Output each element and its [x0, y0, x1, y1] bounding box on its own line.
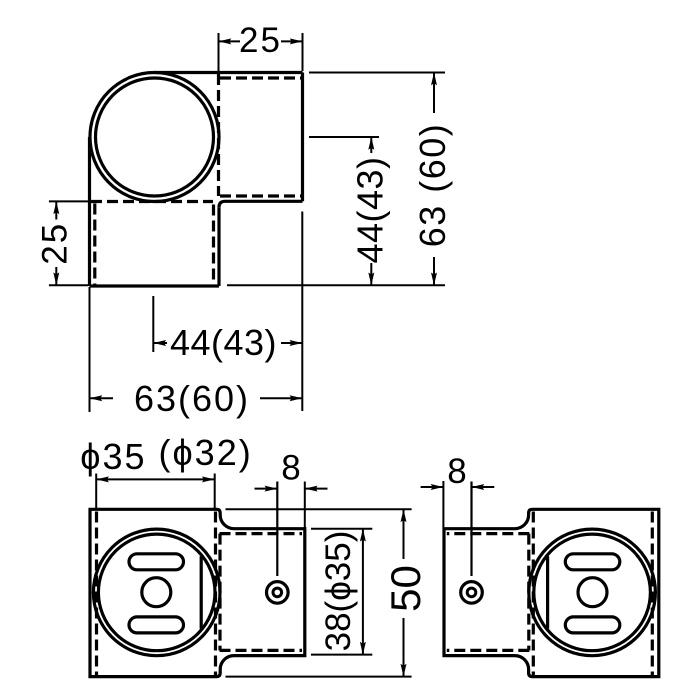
svg-text:25: 25 — [239, 21, 282, 60]
screw hole outer — [267, 582, 289, 604]
svg-text:63 (60): 63 (60) — [412, 123, 453, 248]
hidden line: right arm bore top — [220, 76, 301, 79]
svg-text:44(43): 44(43) — [349, 156, 390, 263]
hidden line: bore left wall — [651, 512, 654, 676]
hidden line: right arm bore bottom — [220, 194, 301, 197]
dim phi35(phi32): extension lines — [95, 474, 97, 509]
bore flat chord — [546, 556, 549, 628]
center hole — [578, 578, 607, 607]
socket boss outer circle — [90, 73, 219, 202]
socket ring outer circle — [529, 529, 656, 656]
upper slot — [565, 554, 620, 570]
hidden line: right arm socket end — [217, 74, 220, 196]
dim 63(60) horizontal: left extension (body edge extended) — [89, 287, 91, 412]
dim 8 left view: right extension line — [304, 482, 306, 528]
dim 38(phi35): dimension line both arrows — [362, 529, 364, 655]
dim 63(60) vertical: dimension line — [433, 73, 435, 114]
screw hole centerline — [470, 482, 472, 577]
body left edge — [88, 137, 91, 286]
socket bore inner circle — [96, 78, 214, 196]
hidden line: arm bore bottom — [220, 649, 303, 652]
center hole — [142, 578, 171, 607]
dim 63(60) vertical: top extension line — [309, 72, 445, 74]
hidden line: arm bore top — [447, 532, 530, 535]
svg-text:38(ϕ35): 38(ϕ35) — [319, 531, 358, 652]
dim 25 left: extension lines — [49, 200, 88, 202]
dim phi35(phi32): dimension line both arrows — [96, 478, 215, 480]
dim 25 top: dimension line with outward arrows — [219, 40, 241, 42]
dim 50: dimension line — [403, 509, 405, 559]
dim 50: bottom extension line — [226, 676, 412, 678]
svg-text:ϕ35 (ϕ32): ϕ35 (ϕ32) — [80, 432, 252, 477]
svg-text:8: 8 — [447, 452, 466, 491]
svg-text:8: 8 — [281, 449, 300, 488]
hidden line: arm bore bottom — [447, 649, 530, 652]
svg-text:63(60): 63(60) — [134, 378, 250, 419]
right extension line x=302.3 — [301, 212, 303, 412]
dim 25 left: dimension line — [55, 201, 57, 219]
hidden line: lower arm socket end — [91, 200, 213, 203]
lower slot — [129, 617, 184, 633]
body outline top edge — [155, 71, 303, 74]
body right edge — [301, 73, 304, 202]
screw hole inner — [467, 588, 476, 597]
hidden line: arm bore top — [220, 532, 303, 535]
hidden line: bore left wall — [95, 512, 98, 676]
dim 8 right view: inward arrows — [421, 486, 444, 488]
hidden line: bore right wall — [214, 512, 217, 676]
dim 44(43) vertical: extension line — [309, 136, 379, 138]
lower arm right edge — [217, 207, 220, 286]
svg-text:25: 25 — [36, 222, 75, 265]
dim 63(60)/44(43) shared bottom extension line — [227, 284, 445, 286]
svg-text:44(43): 44(43) — [170, 322, 277, 363]
dim 25 top: extension lines — [218, 33, 220, 71]
hidden line: lower arm bore right — [212, 205, 215, 285]
socket ring inner circle — [98, 534, 215, 651]
dim 44(43) vertical: dimension line — [370, 137, 372, 153]
upper slot — [129, 554, 184, 570]
dim 8 left view: inward arrows — [255, 488, 278, 490]
hidden line: arm socket end — [527, 534, 530, 651]
hidden line: arm socket end — [218, 534, 221, 651]
main body outline with neck fillets and arm — [90, 509, 305, 676]
socket ring outer circle — [93, 529, 220, 656]
dim 38(phi35): extension lines — [311, 528, 372, 530]
screw hole centerline — [276, 482, 278, 577]
bore flat chord — [200, 556, 203, 628]
main body outline mirrored — [444, 509, 659, 676]
svg-text:50: 50 — [382, 565, 429, 612]
socket ring inner circle — [534, 534, 651, 651]
dim 44(43) horizontal: extension line — [152, 296, 154, 352]
dim 50: top extension line — [226, 508, 412, 510]
body bottom edge — [90, 284, 220, 287]
step bottom of right arm with fillet — [219, 201, 303, 207]
hidden line: lower arm bore left — [93, 204, 96, 285]
dim 8 right view: left extension line — [442, 481, 444, 528]
hidden line: bore right wall — [532, 512, 535, 676]
dim 63(60) horizontal: dimension line — [90, 397, 114, 399]
screw hole outer — [461, 582, 483, 604]
screw hole inner — [273, 588, 282, 597]
lower slot — [565, 617, 620, 633]
dim 44(43) horizontal: dimension line — [153, 342, 167, 344]
